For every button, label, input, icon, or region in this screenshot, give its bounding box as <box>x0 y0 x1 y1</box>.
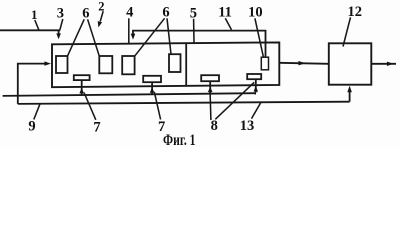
svg-text:7: 7 <box>93 119 100 135</box>
svg-text:4: 4 <box>126 5 133 21</box>
svg-text:5: 5 <box>190 5 197 21</box>
svg-text:8: 8 <box>211 118 218 134</box>
svg-text:6: 6 <box>162 5 169 21</box>
svg-text:13: 13 <box>240 118 255 134</box>
svg-text:1: 1 <box>31 7 38 22</box>
svg-text:10: 10 <box>248 5 263 21</box>
svg-text:2: 2 <box>98 0 104 14</box>
svg-text:Фиг. 1: Фиг. 1 <box>163 132 196 147</box>
svg-text:3: 3 <box>57 6 64 22</box>
svg-text:11: 11 <box>218 5 232 21</box>
svg-text:9: 9 <box>28 119 35 135</box>
svg-text:12: 12 <box>348 4 363 20</box>
svg-text:6: 6 <box>82 6 89 22</box>
